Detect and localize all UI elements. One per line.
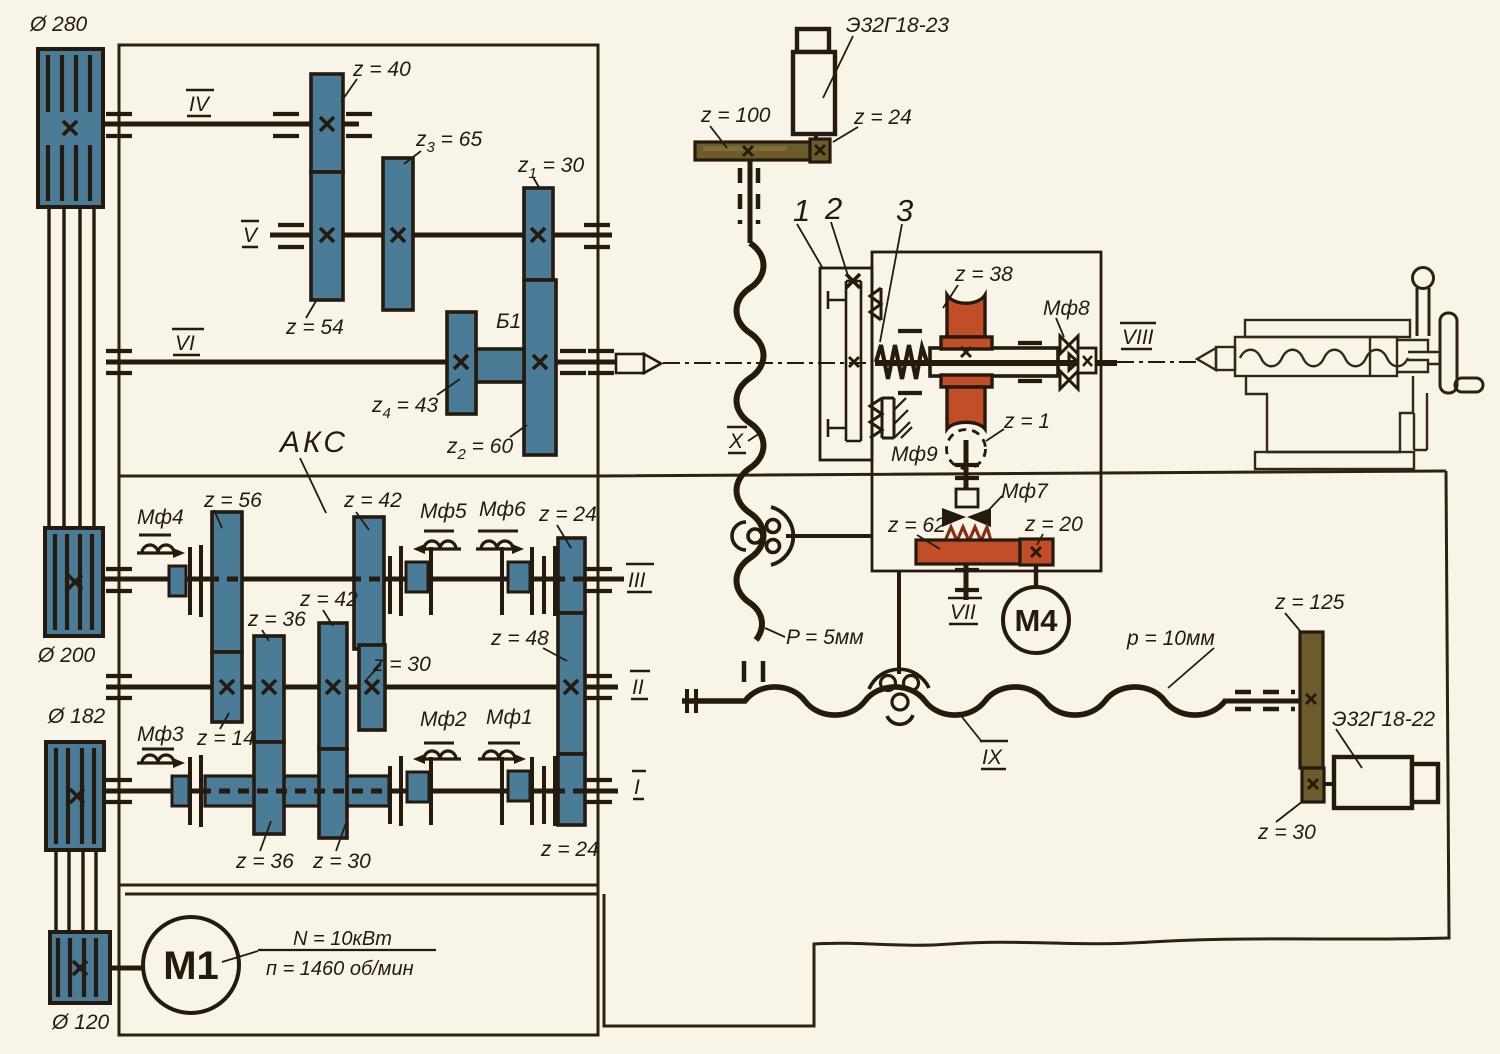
- bearing shaft VI at left frame: [106, 351, 132, 373]
- gear z=24 bottom (shaft I): [558, 754, 585, 825]
- shaft VII upper segment: [964, 440, 969, 489]
- clutch plate bars shaft III: [190, 545, 555, 617]
- gear z=42 (shaft II): [319, 623, 347, 749]
- leader z=40: [341, 79, 357, 102]
- leader z=14: [220, 713, 229, 729]
- tailstock screw wavy line: [1240, 350, 1408, 367]
- rack gear z=125: [1300, 632, 1323, 768]
- svg-text:z = 20: z = 20: [1024, 513, 1083, 536]
- label shaft IX: [980, 741, 1008, 769]
- clutch Mf8: [1060, 336, 1078, 389]
- bearing shaft IV mid: [273, 114, 299, 136]
- feed rod IX right straight end: [1223, 699, 1300, 704]
- svg-text:VIII: VIII: [1122, 326, 1154, 349]
- shaft IV: [103, 122, 359, 127]
- leadscrew X end half-nut bars: [744, 661, 763, 682]
- leader 2: [831, 222, 849, 279]
- svg-text:VI: VI: [175, 332, 195, 355]
- leader z=36 lower: [260, 821, 271, 851]
- freewheel hub Mf6 (shaft III): [508, 562, 530, 592]
- leader 3: [880, 224, 902, 342]
- svg-text:Ø 182: Ø 182: [47, 705, 106, 728]
- motor E32G18-23 body: [793, 29, 835, 134]
- svg-text:z = 24: z = 24: [538, 503, 597, 526]
- shaft VII lower segment: [964, 564, 969, 600]
- wire from apron down to feed rod clutch: [897, 571, 901, 674]
- gear z4=43 (shaft VI): [447, 312, 476, 414]
- svg-text:Мф5: Мф5: [420, 500, 467, 523]
- leader z=30 (shaft II): [367, 664, 381, 679]
- svg-text:Б1: Б1: [496, 310, 521, 333]
- bearing shaft IV at frame: [106, 114, 132, 136]
- svg-text:z = 125: z = 125: [1274, 591, 1345, 614]
- label shaft VIII: [1120, 323, 1156, 349]
- svg-text:Ø 200: Ø 200: [37, 644, 96, 667]
- motor E32G18-22 shaft stub: [1324, 782, 1334, 786]
- overload clutch Mf7: [942, 489, 991, 541]
- gear z=48 (shaft II): [558, 613, 585, 754]
- label shaft V: [241, 221, 259, 247]
- label N=10kW fraction: [258, 928, 436, 980]
- tailstock side handle: [1455, 378, 1483, 392]
- leader z=42: [356, 512, 369, 530]
- bearing shaft V left end: [278, 225, 304, 247]
- pulley Ф182: [46, 742, 104, 850]
- freewheel symbol Mf6: [476, 531, 524, 554]
- label shaft X: [727, 427, 747, 453]
- svg-text:АКС: АКС: [278, 426, 348, 459]
- svg-text:z = 54: z = 54: [285, 316, 344, 339]
- tailstock dead center: [1197, 347, 1235, 370]
- svg-text:М1: М1: [163, 944, 219, 988]
- frame: feed box bottom line: [119, 884, 598, 887]
- svg-text:2: 2: [824, 191, 842, 226]
- worm wheel z=38 lower half: [941, 375, 992, 429]
- leader Mf7: [984, 496, 1002, 515]
- svg-text:X: X: [728, 430, 744, 453]
- label shaft VI: [172, 329, 204, 355]
- label shaft IV: [186, 90, 214, 116]
- leader z=38: [943, 285, 958, 308]
- leader z=100: [710, 126, 727, 148]
- svg-text:N = 10кВт: N = 10кВт: [293, 928, 392, 950]
- worm z=1 dashed circle: [947, 430, 986, 469]
- gearshift housing box 1: [820, 268, 872, 460]
- freewheel symbol Mf3: [137, 749, 185, 768]
- centerline VIII from spindle to apron: [663, 362, 872, 364]
- freewheel symbol Mf1: [478, 743, 526, 764]
- tailstock quill: [1235, 337, 1397, 376]
- svg-text:Мф1: Мф1: [486, 706, 533, 729]
- svg-text:Мф2: Мф2: [420, 708, 467, 731]
- shaft III: [103, 577, 624, 582]
- svg-text:z = 56: z = 56: [203, 489, 262, 512]
- shaft II: [106, 685, 618, 690]
- motor M1 shaft: [110, 966, 144, 971]
- svg-text:Мф9: Мф9: [891, 443, 938, 466]
- pulley belt Ф182-Ф120: [56, 848, 96, 935]
- motor M4: [1003, 587, 1069, 653]
- feed rod IX wavy line: [682, 687, 1225, 715]
- svg-text:I: I: [634, 776, 640, 799]
- svg-text:VII: VII: [950, 601, 976, 624]
- pulley Ф280: [38, 49, 103, 207]
- svg-text:z = 48: z = 48: [490, 627, 549, 650]
- freewheel symbol Mf4: [137, 535, 185, 558]
- svg-text:z = 24: z = 24: [540, 838, 599, 861]
- bearing shaft VI at right frame: [588, 351, 614, 373]
- svg-text:z = 42: z = 42: [299, 588, 358, 611]
- leader shaft IX: [958, 712, 982, 742]
- gear z=56 (shaft III): [212, 512, 242, 652]
- shaft VIII thick line through apron: [875, 360, 1117, 366]
- leader z=24 (rack drive): [833, 127, 858, 142]
- leader z=42 (shaft II): [323, 610, 333, 626]
- selector rod in box 1: [828, 281, 861, 441]
- gear z=30 (shaft II): [359, 645, 385, 730]
- leader z=48: [543, 648, 567, 661]
- pinion z=30 (motor shaft): [1302, 768, 1324, 802]
- leader z=1: [986, 429, 1004, 441]
- leader E32G18-22: [1336, 729, 1362, 768]
- tailstock handwheel rim: [1440, 313, 1457, 393]
- svg-text:III: III: [628, 569, 646, 592]
- leader z=24 top: [557, 525, 571, 548]
- svg-text:z = 40: z = 40: [352, 58, 411, 81]
- svg-text:z = 30: z = 30: [1257, 821, 1316, 844]
- gear z=30 (shaft I): [319, 749, 347, 838]
- label shaft II: [630, 671, 650, 699]
- label shaft VII: [948, 598, 982, 624]
- tailstock screw support: [1414, 393, 1427, 450]
- svg-text:z = 36: z = 36: [247, 608, 306, 631]
- freewheel hub Mf3 (shaft I): [172, 776, 189, 806]
- bearing shaft I left frame: [106, 780, 132, 802]
- svg-text:z = 36: z = 36: [235, 850, 294, 873]
- pinion z=24 on motor shaft: [810, 139, 830, 162]
- sliding block B1 sleeve: [476, 349, 524, 382]
- apron housing box: [872, 252, 1101, 571]
- ratchet upper on apron wall: [870, 288, 881, 320]
- centerline VIII to tailstock: [1117, 361, 1200, 363]
- leader z3=65: [404, 151, 421, 164]
- gear z=62 (shaft VII): [916, 540, 1020, 564]
- leader z4=43: [437, 379, 460, 395]
- clutch plate bars shaft I: [190, 755, 555, 827]
- frame: divider between speed box and feed box, continuing as machine bed top: [119, 471, 1446, 476]
- bearing shaft III right frame: [586, 569, 612, 591]
- leader M1 power note: [222, 951, 258, 962]
- tailstock crank handle: [1413, 268, 1434, 337]
- gear z=42 (shaft III): [354, 517, 384, 649]
- leader z=20: [1037, 534, 1043, 545]
- selector rod cross mark 2: [846, 274, 860, 288]
- leader z=54: [306, 301, 316, 318]
- leader z2=60: [510, 425, 527, 437]
- svg-text:II: II: [632, 676, 644, 699]
- dashed shaft III through gears: [208, 577, 589, 582]
- gear z=40 (shaft IV): [311, 74, 343, 172]
- bearing shaft II left frame: [106, 676, 132, 698]
- svg-text:p = 10мм: p = 10мм: [1126, 627, 1215, 650]
- leader E32G18-23: [823, 36, 853, 98]
- svg-text:z = 100: z = 100: [700, 104, 771, 127]
- gear z=36 (shaft II): [254, 636, 284, 742]
- leader z=30 lower: [336, 823, 346, 851]
- cross mark on sleeve: [961, 347, 971, 357]
- gear z3=65 (shaft V): [383, 158, 413, 310]
- leader z=56: [214, 510, 222, 528]
- svg-text:Мф3: Мф3: [137, 723, 184, 746]
- bearing shaft IV right end: [346, 114, 372, 136]
- leadscrew X wavy line: [737, 243, 764, 640]
- bearing shaft V at frame: [584, 225, 610, 247]
- ratchet lower with fixed support: [870, 398, 912, 438]
- motor E32G18-23 shaft stub: [814, 134, 818, 143]
- bearing shaft I right frame: [586, 780, 612, 802]
- gear z2=60 (shaft VI): [524, 280, 556, 455]
- shaft VI (spindle): [106, 360, 616, 365]
- motor M4 shaft link: [1034, 565, 1038, 588]
- leader z1=30: [533, 177, 540, 189]
- shaft I: [106, 789, 618, 794]
- svg-text:z = 42: z = 42: [343, 489, 402, 512]
- machine bed outline right part: [604, 471, 1449, 1026]
- leader 1: [797, 224, 822, 267]
- leader P=5mm: [765, 628, 785, 637]
- bearing shaft III left frame: [106, 569, 132, 591]
- leader z=62: [917, 535, 940, 549]
- wire from split nut to apron: [786, 534, 872, 538]
- svg-text:М4: М4: [1014, 603, 1058, 638]
- shaft V: [270, 233, 612, 238]
- svg-text:Мф8: Мф8: [1043, 297, 1090, 320]
- label shaft I: [632, 771, 646, 799]
- quill sleeve on shaft VIII: [930, 348, 1058, 376]
- svg-text:z = 24: z = 24: [853, 106, 912, 129]
- leader shaft X: [748, 433, 760, 441]
- svg-text:Ø 120: Ø 120: [51, 1011, 110, 1034]
- telescopic dashes on X: [740, 168, 758, 224]
- leader p=10mm: [1168, 648, 1214, 688]
- svg-text:Мф6: Мф6: [479, 498, 526, 521]
- svg-text:P = 5мм: P = 5мм: [786, 626, 864, 649]
- svg-text:3: 3: [896, 193, 913, 228]
- leader z=30 (rack drive): [1276, 801, 1303, 822]
- clutch Mf8 sliding block: [1078, 348, 1096, 373]
- svg-text:z = 1: z = 1: [1003, 410, 1050, 433]
- freewheel hub Mf1 (shaft I): [508, 771, 530, 801]
- leadscrew X upper stub: [748, 160, 753, 243]
- selector rod cross mark on centerline: [849, 357, 859, 367]
- tailstock base plate: [1255, 452, 1414, 469]
- tailstock body: [1246, 376, 1413, 452]
- spring 3 on shaft VIII: [876, 345, 927, 379]
- gear z1=30 (shaft V): [524, 188, 553, 280]
- feed rod IX left end bars: [687, 689, 696, 713]
- bearing shaft VII on bed line: [955, 465, 979, 478]
- svg-text:z = 38: z = 38: [954, 263, 1013, 286]
- bearing shaft VII lower: [955, 570, 979, 590]
- frame: headstock/gearbox outer box: [119, 45, 598, 1035]
- leader AKC: [300, 458, 326, 513]
- bearing ticks near gear: [898, 331, 1042, 393]
- gear z=24 top (shaft III): [558, 538, 585, 613]
- svg-text:z = 62: z = 62: [887, 514, 946, 537]
- telescopic dashes on IX: [1235, 692, 1295, 709]
- sleeve gear on shaft I: [205, 776, 389, 806]
- worm wheel z=38 upper half: [941, 295, 992, 349]
- label shaft III: [626, 564, 654, 592]
- frame: motor compartment top line: [125, 893, 598, 896]
- tailstock hub link: [1428, 352, 1440, 364]
- gear z=36 (shaft I): [254, 742, 284, 834]
- gear z=14 (shaft II): [212, 652, 242, 722]
- pulley belt Ф280-Ф200: [49, 205, 94, 530]
- tailstock upper casting: [1245, 320, 1410, 337]
- gear z=20 (motor M4 shaft): [1020, 539, 1053, 565]
- bearing shaft II right frame: [586, 676, 612, 698]
- pulley Ф200: [45, 528, 103, 636]
- freewheel hub Mf2 (shaft I): [407, 772, 429, 802]
- svg-text:Ø 280: Ø 280: [29, 13, 88, 36]
- svg-text:z = 14: z = 14: [196, 727, 255, 750]
- freewheel hub Mf5 (shaft III): [406, 562, 428, 592]
- motor E32G18-22 body: [1334, 757, 1438, 808]
- svg-text:Мф7: Мф7: [1001, 480, 1049, 503]
- spindle nose center: [616, 354, 661, 373]
- motor M1: [143, 917, 239, 1013]
- svg-text:z = 30: z = 30: [312, 850, 371, 873]
- rack gear z=100: [695, 142, 810, 160]
- svg-text:1: 1: [793, 193, 810, 228]
- tailstock screw bracket: [1397, 340, 1428, 372]
- freewheel symbol Mf2 (arrow left): [413, 743, 461, 764]
- svg-text:IV: IV: [189, 93, 211, 116]
- leader z=125: [1285, 613, 1301, 632]
- leader Mf8: [1056, 318, 1064, 337]
- pulley Ф120: [50, 932, 110, 1003]
- freewheel hub Mf4 (shaft III): [169, 566, 186, 596]
- svg-text:Э32Г18-23: Э32Г18-23: [846, 14, 949, 37]
- bearing shaft VI inner: [560, 351, 586, 373]
- dashed shaft I through gears: [200, 789, 589, 794]
- overrunning clutch on feed rod IX: [869, 669, 929, 724]
- svg-text:п = 1460 об/мин: п = 1460 об/мин: [266, 958, 414, 980]
- gear z=54 (shaft V): [311, 172, 343, 300]
- split nut on leadscrew X: [732, 507, 793, 565]
- freewheel symbol Mf5 (arrow left): [413, 531, 461, 554]
- leader z=36 upper: [262, 630, 269, 641]
- svg-text:V: V: [243, 224, 259, 247]
- svg-text:Э32Г18-22: Э32Г18-22: [1332, 708, 1435, 731]
- svg-text:Мф4: Мф4: [137, 506, 184, 529]
- svg-text:IX: IX: [982, 746, 1003, 769]
